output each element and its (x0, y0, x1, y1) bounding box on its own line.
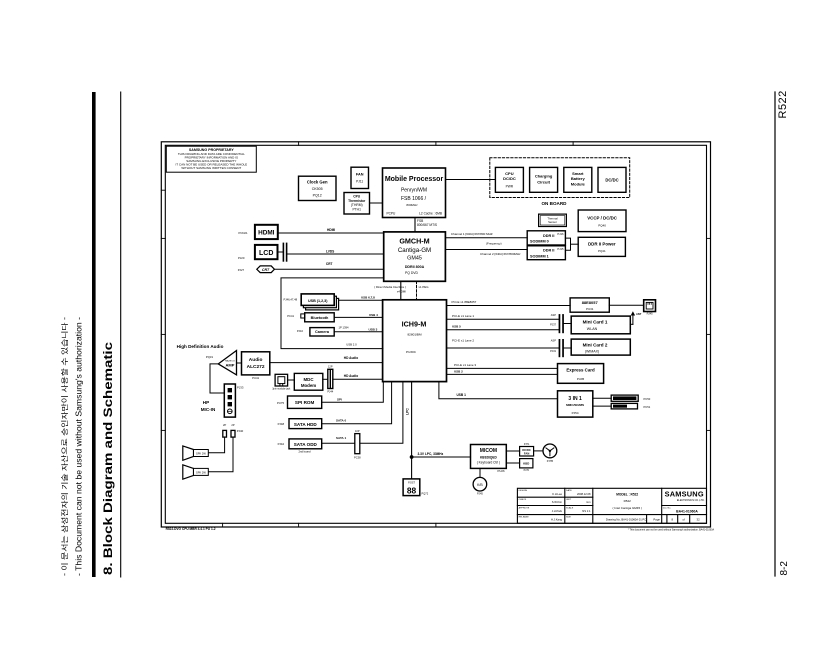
svg-text:Penryn/WM: Penryn/WM (401, 188, 427, 194)
svg-text:Doc No.: Doc No. (663, 507, 671, 509)
svg-text:10P: 10P (355, 429, 360, 433)
svg-text:DC/DC: DC/DC (522, 448, 531, 452)
svg-text:3.3V LPC, 33MHz: 3.3V LPC, 33MHz (418, 452, 444, 456)
svg-text:FSB 1066 /: FSB 1066 / (401, 196, 427, 202)
svg-text:8-2: 8-2 (779, 561, 790, 576)
wlan antenna (630, 311, 641, 324)
svg-text:(Frequency): (Frequency) (486, 242, 502, 246)
svg-text:32: 32 (697, 517, 701, 521)
title block approvals column (519, 490, 530, 518)
left thin rule (120, 92, 122, 577)
wire 3in1 to led b (593, 405, 611, 407)
svg-text:PJ70: PJ70 (524, 469, 530, 472)
3 in 1 card reader PJ54 (558, 391, 593, 417)
speaker jacks 2P PJ40 (223, 423, 244, 437)
svg-text:USB 6,7,8: USB 6,7,8 (361, 296, 375, 300)
wire conn to minicard2 (564, 347, 571, 349)
wire micom to int kb (479, 468, 481, 477)
svg-text:Mini Card 1: Mini Card 1 (583, 320, 608, 325)
mini card 2 wimax (571, 339, 630, 355)
svg-text:ASP: ASP (551, 339, 556, 343)
svg-text:P.OST: P.OST (408, 481, 415, 484)
camera module PJ10 (297, 328, 334, 336)
svg-text:NS 1:1: NS 1:1 (582, 509, 591, 513)
wire thermistor to cpu (370, 202, 383, 204)
svg-text:PC51: PC51 (644, 405, 651, 409)
svg-text:PJ42: PJ42 (278, 442, 285, 446)
wire 3in1 to led a (593, 397, 611, 399)
svg-text:Smart: Smart (572, 171, 584, 176)
keyboard connector block PJ70 (520, 459, 533, 473)
wire hdmi (278, 228, 384, 233)
left thick divider bar (92, 92, 96, 577)
svg-text:PU26: PU26 (498, 469, 505, 473)
svg-text:of: of (683, 517, 686, 521)
svg-text:RJ45: RJ45 (647, 311, 654, 315)
svg-text:PJ15: PJ15 (557, 247, 564, 251)
svg-text:LVDS: LVDS (326, 249, 334, 253)
svg-text:PJ2B: PJ2B (577, 377, 584, 381)
crt connector PJ27 (238, 266, 275, 273)
svg-text:PU31: PU31 (586, 307, 594, 311)
svg-text:KB926QED: KB926QED (480, 455, 498, 459)
svg-text:R522: R522 (624, 499, 632, 503)
svg-text:USB 2.0: USB 2.0 (346, 343, 357, 347)
gmch northbridge U2 (384, 232, 446, 281)
card socket A PC50 (611, 395, 651, 401)
wire speaker left (208, 437, 233, 472)
svg-text:ON BOARD: ON BOARD (541, 201, 567, 206)
wire camera usb (334, 325, 382, 332)
svg-text:SCALE: SCALE (566, 506, 574, 509)
svg-text:SATA 1: SATA 1 (336, 436, 346, 440)
svg-text:Clock Gen: Clock Gen (307, 180, 328, 185)
svg-text:SPK 2W: SPK 2W (196, 470, 206, 474)
svg-text:FAN: FAN (524, 452, 529, 456)
svg-text:H.J.Kang: H.J.Kang (551, 518, 563, 522)
svg-text:K/B: K/B (477, 483, 483, 487)
wire peg dashed (417, 281, 430, 300)
svg-text:USB 3: USB 3 (369, 327, 378, 331)
svg-text:Drawing No, BA41-01060A 01 PC: Drawing No, BA41-01060A 01 PC (606, 517, 646, 521)
svg-text:CK505: CK505 (312, 187, 323, 191)
svg-text:USB 2: USB 2 (454, 370, 463, 374)
svg-text:PJ54: PJ54 (572, 411, 579, 415)
svg-text:CRT: CRT (326, 262, 333, 266)
svg-text:HD Audio: HD Audio (344, 356, 358, 360)
svg-text:DDR II: DDR II (543, 234, 554, 238)
wire usb5 minicard (447, 324, 559, 329)
svg-text:HD Audio: HD Audio (344, 374, 358, 378)
bluetooth module PC41 (287, 313, 334, 322)
svg-text:- 이 문서는 삼성전자의 기술 자산으로 승인자만이 사용: - 이 문서는 삼성전자의 기술 자산으로 승인자만이 사용할 수 있습니다 - (60, 316, 69, 576)
svg-text:PCI-E x1 Lane 3: PCI-E x1 Lane 3 (454, 363, 476, 367)
cpu thermistor PTH1 (344, 193, 370, 215)
micom keyboard controller PU26 (471, 445, 507, 474)
svg-text:SATA HDD: SATA HDD (294, 422, 318, 427)
svg-text:PQ72: PQ72 (422, 492, 429, 496)
wire lvds (287, 249, 383, 254)
svg-text:R522: R522 (777, 90, 789, 118)
wire sata1 (322, 382, 403, 444)
svg-text:PJ45: PJ45 (477, 492, 483, 496)
svg-text:PCI-E x1 Lane 2: PCI-E x1 Lane 2 (452, 338, 474, 342)
dc/dc block (598, 167, 626, 192)
wire lan to rj45 (609, 304, 643, 306)
wire pcie lane2 (447, 338, 559, 348)
svg-text:Cantiga-GM: Cantiga-GM (398, 247, 431, 254)
svg-text:Modem: Modem (301, 383, 316, 388)
ich9m southbridge U3 (383, 300, 447, 382)
svg-text:x1 PEG: x1 PEG (419, 285, 430, 289)
svg-text:PJ16: PJ16 (557, 232, 564, 236)
mdc connector 12P PJ44 (327, 364, 333, 393)
svg-text:DC/DC: DC/DC (503, 176, 516, 181)
svg-text:MS PRO: MS PRO (615, 405, 625, 408)
wire fanctl to fan (534, 450, 543, 452)
svg-text:LCD: LCD (259, 250, 273, 257)
mdc modem module (294, 373, 323, 390)
sodimm power bracket wire (565, 238, 570, 250)
headphone amp PQ31 (206, 351, 237, 375)
svg-text:PJ10: PJ10 (297, 329, 304, 333)
svg-text:PCI-E x1 88E8057: PCI-E x1 88E8057 (452, 300, 477, 304)
svg-text:PC41: PC41 (287, 314, 294, 318)
svg-text:PJ31: PJ31 (550, 349, 556, 353)
svg-text:CHECK: CHECK (519, 499, 527, 501)
wire micom to fan ctrl (506, 450, 519, 452)
svg-text:SPI: SPI (337, 397, 342, 401)
samsung proprietary notice box (166, 146, 256, 172)
svg-text:GM45: GM45 (407, 256, 422, 262)
minicard1 connector PJ37 (550, 313, 564, 333)
smart battery module block (564, 167, 592, 192)
svg-text:MDC: MDC (304, 377, 315, 382)
fan control block PJ71 (520, 443, 534, 456)
zone ticks left (161, 190, 165, 430)
thermal sensor block (539, 214, 567, 226)
svg-text:(WiMAX): (WiMAX) (585, 349, 599, 353)
wire bluetooth usb (334, 313, 382, 318)
svg-text:BA41-01060A: BA41-01060A (676, 509, 698, 513)
svg-text:PJ27: PJ27 (238, 268, 245, 272)
svg-text:* This document can not be use: * This document can not be used without … (628, 528, 715, 531)
svg-text:2008.12.08: 2008.12.08 (577, 492, 591, 496)
svg-text:USB 5: USB 5 (452, 324, 461, 328)
svg-text:800/667 MT/S: 800/667 MT/S (417, 223, 437, 227)
svg-text:( Intel Cantiga GM45 ): ( Intel Cantiga GM45 ) (612, 506, 642, 510)
svg-text:SAMSUNG: SAMSUNG (665, 490, 704, 499)
svg-text:K.H.Lee: K.H.Lee (552, 492, 562, 496)
samsung logo cell (663, 490, 705, 514)
svg-text:KBD: KBD (523, 462, 529, 466)
svg-text:R522.DVG CPU MBR 4.4.1 PU 1-2: R522.DVG CPU MBR 4.4.1 PU 1-2 (166, 527, 216, 531)
svg-text:PJ33: PJ33 (237, 386, 244, 390)
wire fsb cpu to gmch (414, 218, 416, 232)
svg-text:Audio: Audio (249, 357, 263, 363)
svg-text:HP: HP (203, 400, 209, 405)
outer border frame (161, 142, 710, 527)
svg-text:PCN21: PCN21 (239, 231, 248, 235)
svg-text:1P 1394: 1P 1394 (339, 325, 349, 329)
lcd connector bars (278, 243, 288, 262)
svg-text:PQ DVD: PQ DVD (405, 271, 419, 275)
svg-text:3pin modular jack: 3pin modular jack (272, 388, 291, 391)
sata hdd PJ48 (278, 419, 322, 429)
sata odd PJ42 (278, 439, 322, 454)
svg-text:PQ41: PQ41 (598, 249, 606, 253)
svg-text:PQ12: PQ12 (313, 194, 322, 198)
svg-text:LPC: LPC (406, 408, 410, 415)
svg-text:S.W.Kim: S.W.Kim (552, 500, 563, 504)
title block frame (517, 488, 706, 523)
svg-text:2P: 2P (223, 423, 226, 427)
lan controller 88E8057 PU31 (570, 298, 609, 312)
wire amp to hp jack (210, 364, 224, 393)
vccp dc/dc block (578, 210, 626, 232)
svg-text:2P: 2P (231, 423, 234, 427)
svg-text:PCPU: PCPU (387, 211, 397, 215)
wire amp to codec (237, 362, 242, 364)
svg-text:HDMI: HDMI (258, 230, 275, 237)
svg-text:SODIMM 1: SODIMM 1 (530, 254, 549, 258)
svg-text:PCI-E x1 Lane 1: PCI-E x1 Lane 1 (452, 314, 474, 318)
wire micom to kbd conn (506, 462, 519, 464)
wire dmi link (374, 281, 406, 300)
spi rom PU75 (277, 396, 322, 408)
svg-text:MODEL : R522: MODEL : R522 (616, 492, 638, 496)
svg-text:WITHOUT SAMSUNG WRITTEN CONSEN: WITHOUT SAMSUNG WRITTEN CONSENT (181, 166, 241, 170)
svg-text:PJ7B: PJ7B (547, 459, 553, 463)
svg-text:Module: Module (571, 182, 586, 187)
svg-text:UNIT: UNIT (566, 499, 572, 501)
svg-text:PQ40: PQ40 (598, 223, 606, 227)
svg-text:CRT: CRT (262, 268, 270, 272)
wire memory channel 1 (446, 232, 528, 238)
zone ticks right (707, 238, 711, 430)
svg-text:PQ31: PQ31 (206, 355, 214, 359)
clock generator PQ12 (299, 176, 337, 200)
svg-text:SPI ROM: SPI ROM (295, 400, 315, 405)
rj45 jack PJ45 (644, 300, 656, 316)
svg-text:PJ11: PJ11 (356, 180, 363, 184)
audio codec ALC272 PU41 (242, 352, 270, 380)
svg-text:Mobile Processor: Mobile Processor (385, 176, 444, 183)
svg-text:ANT: ANT (636, 312, 642, 316)
hdmi connector PCN21 (239, 225, 278, 239)
speaker R (183, 446, 209, 460)
svg-text:MICOM: MICOM (480, 448, 497, 454)
svg-text:2nd board: 2nd board (298, 449, 311, 453)
svg-text:High Definition Audio: High Definition Audio (177, 344, 224, 349)
svg-text:Channel 2 [64bit] 667/800MHz: Channel 2 [64bit] 667/800MHz (480, 252, 521, 256)
mini card 1 wlan (571, 316, 630, 334)
svg-text:Sensor: Sensor (548, 220, 557, 224)
svg-text:MMC/SD/MS: MMC/SD/MS (566, 403, 584, 407)
hp mic-in jack PJ33 (224, 384, 244, 417)
svg-text:FAN: FAN (356, 172, 364, 176)
svg-text:88: 88 (407, 485, 417, 495)
svg-text:mm: mm (586, 501, 591, 504)
svg-text:( Direct Media Interface ): ( Direct Media Interface ) (374, 285, 406, 289)
svg-text:DDR II: DDR II (543, 249, 554, 253)
svg-text:Battery: Battery (571, 176, 586, 181)
port80 debug display PQ72 (403, 479, 429, 496)
express card slot PJ2B (558, 364, 604, 384)
svg-text:PTH1: PTH1 (352, 208, 361, 212)
svg-text:12P: 12P (328, 364, 333, 368)
svg-text:x4 DMI: x4 DMI (397, 290, 406, 294)
svg-text:SATA ODD: SATA ODD (294, 442, 318, 447)
wire mdc hd audio to ich (333, 374, 383, 379)
svg-text:SATA 0: SATA 0 (336, 418, 346, 422)
wire pcie lane3 (447, 363, 558, 368)
card socket B PC51 (611, 403, 651, 409)
ddr2 sodimm 1 PJ15 (527, 246, 565, 260)
usb ports stack PJ46,47,48 (284, 294, 339, 310)
svg-text:3 IN 1: 3 IN 1 (568, 396, 582, 402)
title block spec column (566, 489, 574, 518)
title block model cell (606, 492, 646, 521)
svg-text:82801IBM: 82801IBM (407, 333, 422, 337)
svg-text:PJ40: PJ40 (237, 429, 244, 433)
wire usb ports (339, 296, 383, 301)
svg-text:PJ48: PJ48 (278, 422, 285, 426)
svg-text:PU75: PU75 (277, 401, 284, 405)
svg-text:Charging: Charging (535, 174, 553, 179)
svg-text:( Keyboard Ctrl ): ( Keyboard Ctrl ) (477, 460, 500, 464)
svg-text:Thermistor: Thermistor (348, 199, 366, 203)
svg-text:SODIMM 0: SODIMM 0 (530, 240, 549, 244)
svg-text:MIC-IN: MIC-IN (201, 407, 216, 412)
svg-text:J.H.Park: J.H.Park (552, 509, 563, 513)
svg-text:88E8057: 88E8057 (582, 300, 599, 305)
svg-text:PJ46,47,48: PJ46,47,48 (284, 297, 298, 301)
svg-text:PU41: PU41 (252, 376, 259, 380)
svg-text:DDRII 800A: DDRII 800A (405, 265, 425, 269)
inner border frame (165, 145, 706, 523)
svg-text:Channel 1 [64bit] 667/800 M: Channel 1 [64bit] 667/800 MHZ (451, 232, 493, 236)
ddr2 sodimm 0 PJ16 (527, 231, 565, 245)
svg-text:APPROVE: APPROVE (519, 506, 530, 509)
svg-text:PJ71: PJ71 (524, 443, 530, 446)
svg-text:PC38: PC38 (354, 455, 361, 459)
wire memory channel 2 (446, 242, 528, 256)
svg-text:USB 4: USB 4 (369, 313, 378, 317)
wire spi (322, 382, 384, 403)
mobile processor U1 (383, 168, 446, 218)
odd connector 10P PC38 (354, 429, 361, 460)
speaker L (183, 465, 209, 479)
svg-text:PC50: PC50 (644, 397, 651, 401)
svg-text:USB 1: USB 1 (457, 393, 467, 397)
svg-text:ASP: ASP (551, 313, 556, 317)
svg-text:PJ20: PJ20 (238, 256, 245, 260)
wire usb2 express (447, 370, 558, 375)
svg-text:Camera: Camera (315, 330, 330, 334)
on board dashed group box (490, 158, 630, 206)
svg-text:SD/MMC/MS: SD/MMC/MS (617, 397, 632, 400)
svg-text:VCCP / DC/DC: VCCP / DC/DC (587, 215, 618, 220)
fan header PJ11 (351, 167, 369, 188)
svg-text:WLAN: WLAN (587, 327, 598, 331)
wire mdc to connector (323, 378, 328, 380)
svg-text:HDMI: HDMI (327, 228, 335, 232)
right thin rule (774, 92, 776, 576)
svg-text:800MHz: 800MHz (406, 203, 418, 207)
svg-text:PU30C: PU30C (406, 350, 417, 354)
wire sata0 (322, 382, 392, 424)
lcd connector PJ20 (238, 245, 278, 260)
wire speaker right (208, 437, 224, 453)
svg-text:Bluetooth: Bluetooth (311, 316, 329, 320)
charging circuit block (530, 167, 558, 192)
svg-text:L2 Cache : 6MB: L2 Cache : 6MB (419, 211, 442, 215)
svg-text:DESIGN: DESIGN (519, 490, 528, 492)
ddr2 power block (578, 237, 625, 256)
svg-text:AMP: AMP (226, 363, 235, 368)
svg-text:SPK 2W: SPK 2W (196, 451, 206, 455)
svg-text:SIZE: SIZE (566, 517, 571, 519)
title block page cells (653, 517, 700, 521)
svg-text:Mini Card 2: Mini Card 2 (583, 342, 608, 347)
svg-text:PJ44: PJ44 (327, 389, 333, 393)
wire lpc (406, 382, 471, 479)
zone ticks bottom (223, 523, 436, 527)
svg-text:PWR: PWR (506, 184, 514, 188)
svg-text:ICH9-M: ICH9-M (402, 320, 427, 329)
internal keyboard PJ45 (473, 477, 487, 495)
system fan motor PJ7B (543, 444, 557, 463)
wire crt (274, 262, 383, 270)
svg-text:GMCH-M: GMCH-M (399, 236, 429, 245)
svg-text:CPU: CPU (505, 171, 514, 176)
minicard2 connector PJ31 (550, 339, 564, 358)
wire pcie lane1 (447, 314, 559, 319)
wire conn to minicard1 (564, 323, 571, 325)
modem modular jack (272, 374, 291, 390)
svg-text:PJ37: PJ37 (550, 323, 556, 327)
wire usb1 to 3in1 (439, 382, 558, 399)
usb group routing box (281, 278, 383, 349)
cpu dc/dc block (495, 167, 523, 192)
svg-text:USB (1,2,3): USB (1,2,3) (308, 299, 328, 303)
svg-text:Express Card: Express Card (566, 368, 595, 373)
wire pcie lan (447, 300, 571, 306)
svg-text:Circuit: Circuit (537, 179, 550, 184)
svg-text:8. Block Diagram and Schematic: 8. Block Diagram and Schematic (103, 341, 115, 575)
svg-text:Page: Page (653, 517, 660, 521)
svg-text:ELECTRONICS CO.,LTD.: ELECTRONICS CO.,LTD. (677, 499, 705, 502)
wire jack to mdc (288, 379, 295, 381)
wire cpu to cpu dcdc (446, 179, 496, 181)
svg-text:(THRM): (THRM) (351, 203, 363, 207)
svg-text:DC/DC: DC/DC (605, 178, 618, 183)
svg-text:- This Document can not be use: - This Document can not be used without … (75, 317, 84, 576)
zone ticks top (299, 142, 573, 146)
svg-text:RELEASE: RELEASE (519, 516, 530, 519)
wire codec hd audio to ich (270, 356, 383, 363)
svg-text:ALC272: ALC272 (247, 364, 265, 370)
svg-text:DATE: DATE (566, 489, 572, 492)
svg-text:DDR II Power: DDR II Power (588, 241, 616, 246)
